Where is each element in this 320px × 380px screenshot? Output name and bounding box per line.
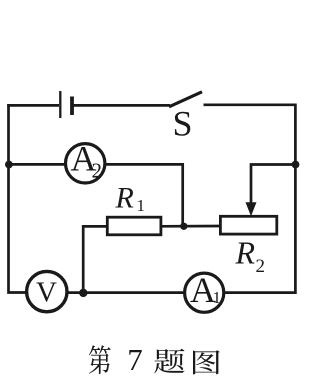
svg-text:7: 7: [127, 342, 143, 377]
node: junction dot at R1 right: [180, 223, 187, 230]
ammeter A1 circle: [185, 273, 224, 312]
wire: ammeter A1 left lead through bottom junction to voltmeter right lead: [67, 291, 186, 294]
ammeter A2 circle: [66, 144, 105, 183]
svg-text:S: S: [172, 104, 192, 144]
node: top-right junction dot: [292, 161, 300, 169]
voltmeter V circle: [27, 271, 67, 311]
rheostat R2 wiper arrowhead: [246, 202, 257, 216]
resistor R1 box: [107, 217, 161, 235]
battery positive plate (long): [59, 91, 61, 118]
node: bottom junction dot: [79, 289, 87, 297]
caption character 题: [154, 349, 184, 374]
svg-text:2: 2: [256, 256, 266, 277]
svg-text:2: 2: [92, 159, 103, 183]
caption character 第: [89, 345, 111, 374]
svg-text:1: 1: [213, 288, 222, 307]
svg-text:V: V: [36, 276, 57, 308]
svg-text:1: 1: [137, 196, 146, 215]
wire: battery to switch left contact: [73, 104, 170, 107]
node: junction dot on left rail: [5, 161, 13, 169]
wire: top-right node to rheostat R2 wiper arrow shaft: [251, 165, 295, 205]
caption character 图: [193, 350, 220, 374]
wire: switch right contact to top-right corner, down right side, to ammeter A1 right lead: [204, 105, 296, 293]
rheostat R2 box: [220, 216, 276, 234]
wire: bottom junction up and over to resistor R1 left lead: [83, 226, 107, 292]
svg-text:R: R: [115, 181, 134, 214]
wire: left side top corner down to bottom-left corner then to voltmeter: [9, 104, 27, 292]
wire: node at left rail to ammeter A2 left lead: [9, 163, 66, 166]
switch S lever: [169, 92, 202, 107]
battery negative plate (short thick): [70, 97, 74, 116]
wire: resistor R1 right lead to node and on to rheostat R2 left lead: [161, 225, 221, 228]
wire: ammeter A2 right lead to corner and down to node at R1 right: [105, 164, 183, 226]
wire: top-left horizontal to battery positive plate: [7, 104, 59, 107]
svg-text:R: R: [235, 234, 256, 270]
